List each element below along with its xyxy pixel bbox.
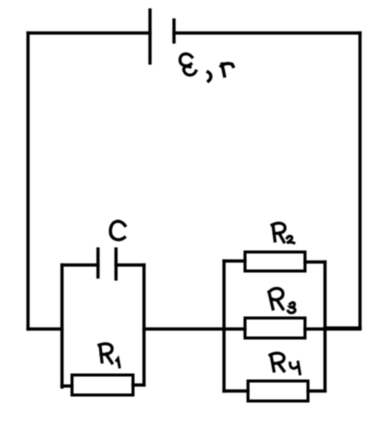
battery EMF source left plate (long) [148,10,151,63]
battery EMF source right plate (short) [172,20,175,42]
wire right vertical [358,33,361,328]
label C of capacitor [110,221,125,239]
wire R2 branch right [305,260,325,263]
wire bottom-right horizontal to node B [325,326,360,329]
label epsilon of EMF [180,54,196,75]
node right rail of parallel resistor network [323,262,326,390]
resistor R1 body [72,375,133,395]
wire right rail of C/R1 parallel box [142,265,145,385]
wire capacitor branch right [116,263,144,266]
wire R1 branch right [133,383,144,386]
wire top-right horizontal [174,31,360,34]
wire top-left horizontal [28,31,150,34]
label r of internal resistance [221,64,233,76]
label R4 subscript 4 [290,362,300,374]
resistor R4 body [248,381,308,401]
wire R2 branch left [224,259,245,262]
node left rail of parallel resistor network [222,261,225,391]
wire left vertical [26,33,29,329]
wire R3 branch right [305,327,360,330]
resistor R3 body [245,318,305,338]
wire capacitor branch left [62,263,98,266]
wire R4 branch left [224,389,248,392]
wire bottom-left horizontal to node A [28,327,62,330]
capacitor C left plate [96,249,99,277]
label R2 subscript 2 [287,236,294,243]
resistor R2 body [245,252,305,271]
label R3 [269,288,283,309]
label R1 [99,344,112,363]
label R2 [272,223,285,242]
node A: left rail of C/R1 parallel box [60,265,63,387]
label R3 subscript 3 [288,303,295,313]
label comma after epsilon [208,72,211,81]
wire R1 branch left [62,384,72,387]
wire middle horizontal between branches [144,327,245,330]
capacitor C right plate [114,249,117,279]
label R4 [270,353,284,371]
wire R4 branch right [308,389,325,392]
label R1 subscript 1 [117,359,120,368]
